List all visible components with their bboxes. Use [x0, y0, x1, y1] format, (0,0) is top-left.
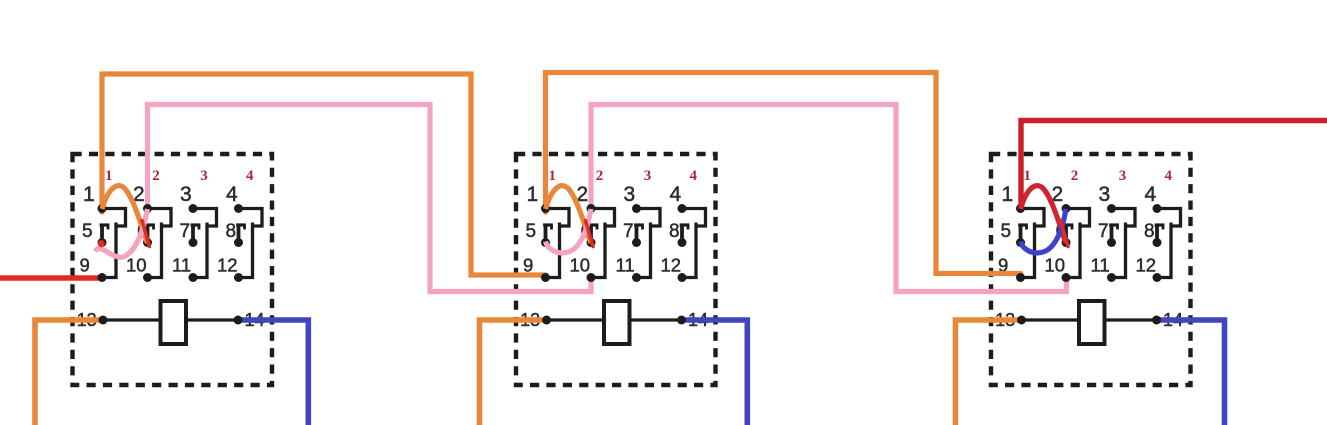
contact NC bracket: [1110, 227, 1114, 242]
jumper pin2-to-pin5 relay K2: [546, 209, 592, 253]
wire orange relay2.pin1 to relay3.pin9: [546, 73, 1021, 274]
svg-text:1: 1: [105, 168, 113, 184]
wire pink relay2.pin2 to relay3.pin10: [591, 105, 1067, 292]
svg-text:10: 10: [1045, 255, 1066, 276]
pin number labels relay K2: [520, 183, 708, 330]
red pole numbers relay K2: [549, 168, 698, 184]
svg-text:1: 1: [1024, 168, 1032, 184]
svg-text:1: 1: [83, 183, 95, 206]
svg-text:3: 3: [644, 168, 652, 184]
contact NO arm + common, pole at x=1111.5: [1112, 209, 1136, 227]
red stub at pin 6 relay K3: [1061, 221, 1069, 247]
relay K2 coil wiring pins 13-14: [547, 318, 682, 321]
svg-text:5: 5: [82, 221, 93, 242]
contact NC bracket: [635, 227, 639, 242]
red pole numbers relay K1: [105, 168, 254, 184]
relay K3 coil: [1079, 301, 1105, 344]
svg-text:8: 8: [226, 221, 237, 242]
contact NO arm + common, pole at x=147.5: [148, 209, 172, 227]
svg-text:5: 5: [1001, 221, 1012, 242]
jumper pin2-to-pin5 relay K3: [1021, 209, 1067, 253]
relay K1 dashed outline box: [73, 154, 273, 385]
svg-text:4: 4: [246, 168, 254, 184]
svg-text:7: 7: [623, 221, 634, 242]
contact NC bracket: [1155, 227, 1159, 242]
red stub at pin 6 relay K2: [586, 221, 594, 247]
svg-text:11: 11: [616, 255, 635, 276]
svg-text:2: 2: [152, 168, 160, 184]
relay K3 coil wiring pins 13-14: [1022, 318, 1157, 321]
pin number labels relay K3: [995, 183, 1183, 330]
svg-text:2: 2: [596, 168, 604, 184]
contact NC bracket: [146, 227, 150, 242]
svg-text:1: 1: [527, 183, 539, 206]
jumper pin1-to-pin6 relay K2: [546, 186, 592, 243]
relay K1 coil: [161, 301, 187, 344]
svg-text:10: 10: [126, 255, 147, 276]
svg-text:9: 9: [80, 255, 90, 276]
contact NO arm + common, pole at x=591: [591, 209, 615, 227]
contact NO arm + common, pole at x=1157: [1157, 209, 1181, 227]
svg-text:8: 8: [1144, 221, 1155, 242]
contact NC bracket: [680, 227, 684, 242]
wire orange relay1.pin1 to relay2.pin9: [102, 74, 546, 275]
svg-text:1: 1: [549, 168, 557, 184]
wire orange relay1.pin13 to bottom supply: [35, 320, 103, 425]
svg-text:4: 4: [1165, 168, 1173, 184]
svg-text:3: 3: [200, 168, 208, 184]
contact NO arm + common, pole at x=193: [193, 209, 217, 227]
relay K3 dashed outline box: [991, 154, 1191, 385]
wire orange relay2.pin13 to bottom supply: [480, 320, 547, 425]
svg-text:5: 5: [526, 221, 537, 242]
svg-text:11: 11: [172, 255, 191, 276]
red pole numbers relay K3: [1024, 168, 1173, 184]
contact NO arm + common, pole at x=1066: [1066, 209, 1090, 227]
pin number labels relay K1: [77, 183, 265, 330]
wire blue relay1.pin14 to bottom supply: [238, 320, 308, 425]
contact NO arm + common, pole at x=636.5: [637, 209, 661, 227]
contact NO arm + common, pole at x=545.5: [546, 209, 570, 227]
contact NO arm + common, pole at x=1020.5: [1021, 209, 1045, 227]
contact NC bracket: [1064, 227, 1068, 242]
relay K2 dashed outline box: [516, 154, 716, 385]
wire dark red feed from top right edge to relay3.pin1: [1021, 121, 1327, 209]
contact NC bracket: [100, 227, 104, 242]
wire blue relay2.pin14 to bottom supply: [682, 320, 748, 425]
svg-text:3: 3: [180, 183, 192, 206]
svg-text:9: 9: [523, 255, 533, 276]
svg-text:10: 10: [570, 255, 591, 276]
relay K2 coil: [604, 301, 630, 344]
svg-text:1: 1: [1002, 183, 1014, 206]
svg-text:12: 12: [1136, 255, 1157, 276]
wire orange relay3.pin13 to bottom supply: [956, 320, 1022, 425]
contact NO arm + common, pole at x=682: [682, 209, 706, 227]
jumper pin2-to-pin5 relay K1: [96, 209, 148, 257]
contact NC bracket: [237, 227, 241, 242]
contact NO arm + common, pole at x=238.5: [239, 209, 263, 227]
svg-text:7: 7: [180, 221, 191, 242]
contact NO arm + common, pole at x=102: [102, 209, 126, 227]
jumper pin1-to-pin6 relay K1: [102, 186, 148, 243]
svg-text:12: 12: [217, 255, 238, 276]
contact NC bracket: [1019, 227, 1023, 242]
relay K2 pin dots: [541, 204, 687, 325]
svg-text:3: 3: [1119, 168, 1127, 184]
svg-text:11: 11: [1091, 255, 1110, 276]
red stub at pin 6 relay K1: [142, 221, 150, 247]
svg-text:2: 2: [1071, 168, 1079, 184]
svg-text:8: 8: [669, 221, 680, 242]
wire red feed from left edge to relay1.pin9: [0, 275, 102, 280]
contact NC bracket: [191, 227, 195, 242]
wire pink relay1.pin2 to relay2.pin10: [148, 105, 592, 292]
relay K3 pin dots: [1016, 204, 1162, 325]
relay K1 pin dots: [98, 204, 244, 325]
contact NC bracket: [589, 227, 593, 242]
relay K1 coil wiring pins 13-14: [103, 318, 238, 321]
wire blue relay3.pin14 to bottom supply: [1157, 320, 1225, 425]
svg-text:3: 3: [1099, 183, 1111, 206]
svg-text:3: 3: [624, 183, 636, 206]
red blob at relay1 pin5: [98, 240, 105, 247]
svg-text:7: 7: [1098, 221, 1109, 242]
contact NC bracket: [544, 227, 548, 242]
jumper pin1-to-pin6 relay K3: [1021, 186, 1067, 243]
svg-text:4: 4: [670, 183, 682, 206]
svg-text:12: 12: [661, 255, 682, 276]
svg-text:4: 4: [1145, 183, 1157, 206]
svg-text:4: 4: [226, 183, 238, 206]
svg-text:4: 4: [690, 168, 698, 184]
